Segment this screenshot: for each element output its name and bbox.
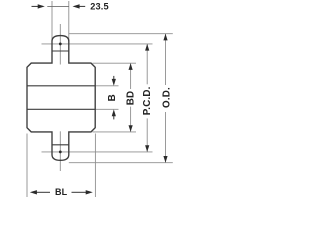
- O.D. bottom arrow: [163, 156, 167, 163]
- B upper arrow (outside, pointing down): [113, 76, 115, 80]
- P.C.D. top centerline: [42, 43, 153, 45]
- svg-text:23.5: 23.5: [90, 1, 109, 11]
- extension line right (tooth side extended, 23.5 dim): [68, 1, 70, 42]
- P.C.D. dimension line lower: [146, 118, 148, 151]
- BL dimension line right with arrow: [72, 191, 87, 193]
- O.D. dimension line lower: [165, 112, 167, 162]
- bore inner line upper: [27, 85, 95, 87]
- svg-text:BL: BL: [55, 187, 68, 197]
- B lower arrow (outside, pointing up): [113, 115, 115, 119]
- B top extension line: [95, 85, 118, 87]
- top roller center dot: [59, 43, 62, 46]
- top tooth root chord: [52, 50, 69, 52]
- BD bottom arrow: [129, 125, 133, 132]
- O.D. top extension line: [69, 33, 173, 35]
- P.C.D. top arrow: [145, 44, 149, 51]
- extension line left (tooth side extended, 23.5 dim): [51, 1, 53, 42]
- P.C.D. bottom centerline: [42, 151, 153, 153]
- svg-text:B: B: [107, 94, 118, 101]
- BL dimension line left with arrow: [36, 191, 50, 193]
- svg-text:O.D.: O.D.: [161, 87, 172, 108]
- bottom tooth vertical centerline: [59, 131, 61, 171]
- bottom tooth root chord: [52, 144, 69, 146]
- O.D. bottom extension line: [69, 162, 173, 164]
- bore inner line lower: [27, 108, 95, 110]
- P.C.D. dimension line upper: [146, 44, 148, 84]
- BD dimension line upper: [130, 63, 132, 89]
- BD top arrow: [129, 63, 133, 70]
- dimension 23.5 right arrow: [77, 5, 85, 7]
- BD dimension line lower: [130, 107, 132, 132]
- B bottom extension line: [95, 108, 118, 110]
- BD top extension line: [93, 62, 137, 64]
- dimension 23.5 left arrow: [32, 5, 39, 7]
- svg-text:BD: BD: [126, 91, 137, 106]
- bottom roller center dot: [59, 151, 62, 154]
- svg-text:P.C.D.: P.C.D.: [142, 86, 153, 115]
- BD bottom extension line: [93, 131, 137, 133]
- O.D. dimension line upper: [165, 34, 167, 85]
- BL right extension line: [94, 134, 96, 198]
- top tooth vertical centerline: [59, 24, 61, 65]
- O.D. top arrow: [163, 34, 167, 41]
- BL left extension line: [26, 134, 28, 198]
- dimension 23.5 line: [47, 5, 69, 7]
- P.C.D. bottom arrow: [145, 145, 149, 152]
- sprocket body outline with top and bottom teeth: [27, 36, 95, 161]
